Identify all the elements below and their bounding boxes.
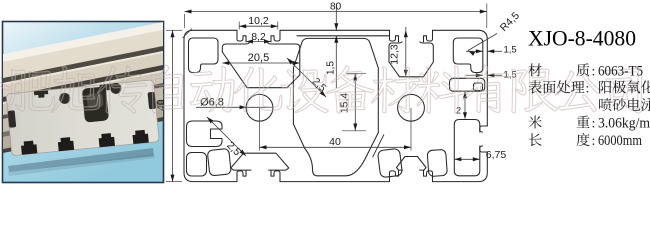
svg-text:2,5: 2,5 <box>224 139 243 158</box>
svg-text::: : <box>592 134 596 149</box>
svg-text:40: 40 <box>329 136 341 148</box>
svg-text:10,2: 10,2 <box>248 15 269 27</box>
svg-text:12,3: 12,3 <box>389 44 401 65</box>
svg-text:6063-T5: 6063-T5 <box>598 63 643 79</box>
svg-text:1,5: 1,5 <box>504 45 517 56</box>
svg-text:6,75: 6,75 <box>486 149 507 161</box>
svg-text::: : <box>592 116 596 131</box>
svg-text::: : <box>586 81 590 96</box>
svg-text:80: 80 <box>330 2 342 13</box>
svg-text:R4,5: R4,5 <box>498 10 522 34</box>
svg-text:6000mm: 6000mm <box>598 133 643 149</box>
svg-text:1,5: 1,5 <box>326 61 337 75</box>
svg-text:XJO-8-4080: XJO-8-4080 <box>528 26 636 51</box>
svg-text::: : <box>592 64 596 79</box>
svg-text:3.06kg/m: 3.06kg/m <box>598 115 650 131</box>
svg-text:20,5: 20,5 <box>248 52 269 64</box>
